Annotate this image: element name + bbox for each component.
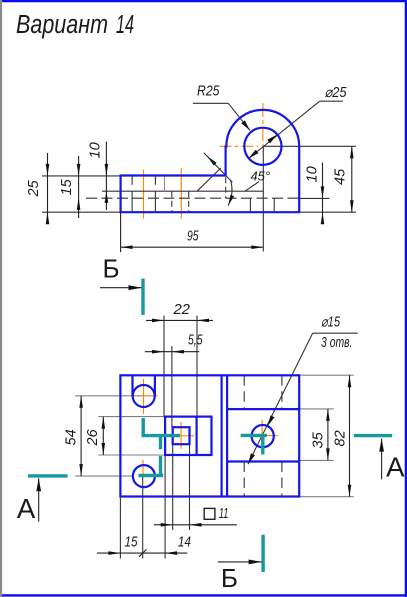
svg-text:Б: Б [103, 254, 120, 284]
svg-text:⌀25: ⌀25 [325, 85, 348, 101]
svg-text:11: 11 [219, 506, 229, 522]
svg-text:А: А [386, 452, 405, 483]
svg-text:45°: 45° [251, 170, 271, 184]
svg-text:3 отв.: 3 отв. [321, 335, 353, 351]
svg-text:35: 35 [311, 431, 327, 448]
svg-text:54: 54 [64, 429, 80, 445]
svg-text:Б: Б [221, 563, 238, 593]
svg-text:R25: R25 [197, 84, 220, 100]
svg-text:25: 25 [26, 179, 42, 197]
svg-text:10: 10 [88, 142, 104, 158]
svg-text:А: А [17, 493, 36, 524]
svg-text:14: 14 [178, 535, 191, 551]
svg-text:15: 15 [125, 535, 139, 551]
svg-text:15: 15 [59, 178, 75, 195]
svg-text:26: 26 [85, 428, 101, 446]
svg-text:95: 95 [187, 229, 199, 245]
svg-text:14: 14 [116, 11, 134, 39]
svg-text:Вариант: Вариант [16, 11, 108, 39]
svg-text:5,5: 5,5 [188, 333, 203, 349]
svg-text:⌀15: ⌀15 [321, 315, 341, 331]
svg-text:82: 82 [333, 430, 349, 446]
svg-text:10: 10 [305, 166, 321, 182]
svg-text:22: 22 [172, 302, 190, 318]
svg-text:45: 45 [333, 168, 349, 185]
